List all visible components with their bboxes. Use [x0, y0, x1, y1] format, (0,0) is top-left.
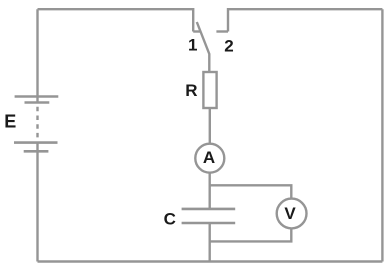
switch contact 1 stub [193, 30, 200, 32]
wire top-right segment [228, 9, 382, 31]
switch blade [197, 22, 210, 72]
svg-text:V: V [284, 204, 296, 223]
wire left edge lower [36, 9, 38, 103]
svg-text:A: A [203, 148, 215, 167]
svg-text:E: E [4, 112, 16, 132]
wire left edge upper [36, 143, 38, 262]
svg-text:C: C [164, 209, 176, 228]
wire bottom edge [38, 260, 383, 262]
wire top-left segment [38, 9, 194, 31]
switch contact 2 stub [216, 30, 228, 32]
wire ammeter to capacitor [208, 173, 210, 209]
battery E cell 2 short plate [24, 150, 49, 153]
ammeter U1 circle [195, 144, 224, 173]
wire resistor to ammeter [209, 108, 211, 144]
svg-text:1: 1 [188, 35, 197, 54]
capacitor C1 top plate [182, 208, 236, 211]
wire capacitor to bottom edge [208, 223, 210, 262]
svg-text:R: R [185, 81, 197, 100]
battery E cell 1 short plate [25, 101, 50, 104]
battery E cell 2 long plate [14, 141, 58, 144]
capacitor C1 bottom plate [182, 222, 236, 225]
battery E dashed link [36, 107, 38, 141]
svg-text:2: 2 [224, 36, 233, 55]
wire voltmeter top branch [210, 185, 292, 199]
wire right edge [381, 9, 383, 261]
voltmeter U2 circle [277, 199, 307, 229]
wire voltmeter bottom branch [210, 228, 292, 241]
battery E cell 1 long plate [15, 95, 59, 98]
resistor R1 body [203, 72, 216, 108]
